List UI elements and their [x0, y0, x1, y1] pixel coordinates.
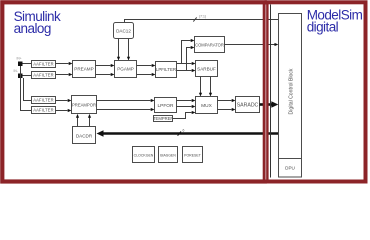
wire SARBUF to MUX right	[209, 77, 212, 97]
svg-text:LPFOR: LPFOR	[158, 103, 175, 109]
block PORESET	[183, 147, 203, 163]
block SARBUF	[196, 61, 218, 77]
block AAFILTER3	[32, 97, 56, 104]
wire IN- to AAFILTER2	[23, 75, 32, 77]
wire AAFILTER2 to PREAMP	[56, 73, 73, 76]
block MUX	[196, 97, 218, 114]
title Simulink analog	[14, 9, 61, 36]
divider highlight line	[265, 5, 267, 180]
input pad IN-	[18, 74, 23, 79]
block PREAMP	[73, 61, 96, 78]
svg-text:DAC12: DAC12	[116, 28, 131, 33]
block Digital Control Block	[279, 14, 302, 159]
wire LPFILTER to SARBUF upper	[177, 62, 196, 65]
title ModelSim digital	[307, 8, 363, 35]
wire TEMPREF to MUX	[173, 111, 196, 119]
svg-text:IN+: IN+	[17, 57, 22, 61]
wire riser to COMPARATOR input 2	[187, 46, 195, 71]
wire LPFOR to MUX lower	[177, 105, 196, 108]
svg-text:IN-: IN-	[14, 69, 18, 73]
svg-text:LPFILTER: LPFILTER	[156, 67, 176, 72]
wire PGAMP to LPFILTER lower	[137, 73, 156, 76]
block COMPARATOR	[195, 37, 225, 53]
wire IN- down to AAFILTER3	[24, 78, 32, 101]
bus slash 6	[178, 132, 181, 136]
wire riser to COMPARATOR input 1	[182, 39, 195, 64]
svg-text:DPU: DPU	[285, 166, 295, 171]
block LPFILTER	[156, 62, 177, 78]
wire MUX to SARADC upper	[218, 99, 236, 102]
block DPU	[279, 159, 302, 178]
svg-text:6: 6	[183, 129, 185, 133]
svg-text:SARBUF: SARBUF	[197, 67, 216, 72]
wire PREAMPOR to LPFOR upper	[97, 99, 155, 102]
block AAFILTER2	[32, 72, 56, 79]
block PGAMP	[115, 61, 137, 78]
wire AAFILTER1 to PREAMP	[56, 62, 73, 65]
border right section (maroon)	[267, 2, 366, 181]
wire SARADC to Digital Control Block (thick)	[260, 101, 279, 107]
wire SARBUF to MUX left	[199, 77, 202, 97]
wire MUX to SARADC lower	[218, 108, 236, 111]
svg-text:TEMPREF: TEMPREF	[153, 116, 173, 121]
block SARADC	[236, 97, 260, 113]
input pad IN+	[18, 62, 23, 67]
block LPFOR	[155, 98, 177, 113]
wire AAFILTER3 to PREAMPOR	[56, 99, 72, 102]
block BIASGEN	[159, 147, 178, 163]
block DACDR	[73, 127, 96, 144]
wire COMPARATOR to Digital Control Block	[225, 43, 279, 46]
svg-text:CLOCKGEN: CLOCKGEN	[134, 153, 154, 157]
svg-text:MUX: MUX	[201, 103, 212, 109]
wire DACDR to PREAMPOR right	[88, 114, 91, 127]
svg-text:digital: digital	[307, 20, 339, 35]
svg-text:PREAMP: PREAMP	[74, 66, 93, 71]
wire PREAMP to PGAMP upper	[96, 64, 115, 67]
svg-text:SARADC: SARADC	[237, 103, 259, 109]
border left section (maroon)	[2, 2, 265, 181]
block AAFILTER4	[32, 107, 56, 114]
block DAC12	[114, 23, 134, 39]
wire IN+ down to AAFILTER4	[21, 66, 32, 111]
svg-text:(7:1): (7:1)	[199, 14, 206, 18]
svg-text:DACDR: DACDR	[76, 133, 93, 138]
block PREAMPOR	[72, 96, 97, 114]
wire PGAMP to LPFILTER upper	[137, 64, 156, 67]
wire PREAMPOR to LPFOR lower	[97, 108, 155, 111]
svg-text:AAFILTER: AAFILTER	[33, 73, 53, 78]
svg-text:AAFILTER: AAFILTER	[33, 62, 53, 67]
wire DAC12 bus to Digital Control Block	[125, 20, 279, 23]
svg-text:BIASGEN: BIASGEN	[160, 153, 176, 157]
svg-text:PGAMP: PGAMP	[117, 67, 134, 72]
wire AAFILTER4 to PREAMPOR	[56, 109, 72, 112]
bus slash (7:1)	[193, 17, 196, 21]
wire PREAMP to PGAMP lower	[96, 73, 115, 76]
wire LPFILTER to SARBUF lower	[177, 69, 196, 72]
block CLOCKGEN	[133, 147, 155, 163]
svg-text:PREAMPOR: PREAMPOR	[72, 102, 96, 107]
block TEMPREF	[153, 116, 173, 122]
wire DACDR to PREAMPOR left	[76, 114, 79, 127]
svg-text:Digital Control Block: Digital Control Block	[289, 68, 295, 114]
svg-text:COMPARATOR: COMPARATOR	[195, 42, 224, 47]
wire LPFOR to MUX upper	[177, 99, 196, 102]
wire feedback Digital Control Block to DACDR (thick)	[97, 130, 279, 136]
frame ModelSim left edge	[270, 5, 272, 178]
svg-text:AAFILTER: AAFILTER	[33, 108, 53, 113]
svg-text:analog: analog	[14, 21, 51, 36]
block AAFILTER1	[32, 61, 56, 68]
svg-text:PORESET: PORESET	[184, 153, 202, 157]
wire DAC12 to PGAMP left	[117, 39, 120, 61]
svg-text:AAFILTER: AAFILTER	[33, 98, 53, 103]
wire DAC12 to PGAMP right	[127, 39, 130, 61]
wire IN+ to AAFILTER1	[23, 63, 32, 65]
